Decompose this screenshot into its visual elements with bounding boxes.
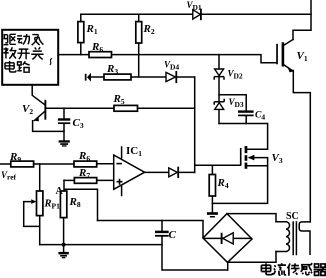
svg-text:V2: V2 — [22, 103, 33, 116]
svg-text:R7: R7 — [78, 167, 90, 180]
svg-text:R8: R8 — [69, 196, 81, 209]
svg-text:SC: SC — [286, 211, 299, 222]
svg-text:V3: V3 — [272, 152, 283, 165]
svg-text:R9: R9 — [9, 151, 21, 164]
svg-text:R6: R6 — [91, 41, 103, 54]
svg-text:R2: R2 — [143, 23, 155, 36]
svg-text:A: A — [56, 186, 64, 197]
svg-text:R5: R5 — [113, 93, 125, 106]
svg-text:C3: C3 — [73, 117, 84, 130]
svg-text:V1: V1 — [297, 50, 308, 63]
svg-text:VD4: VD4 — [164, 60, 179, 72]
svg-text:R4: R4 — [217, 177, 229, 190]
svg-text:C: C — [169, 229, 177, 241]
svg-text:C4: C4 — [255, 111, 265, 122]
svg-text:R3: R3 — [106, 63, 118, 76]
svg-text:VD3: VD3 — [229, 97, 244, 109]
svg-text:R6: R6 — [78, 150, 90, 163]
svg-text:RP1: RP1 — [44, 199, 61, 211]
svg-text:VD1: VD1 — [187, 0, 202, 12]
svg-text:Vref: Vref — [1, 170, 17, 182]
svg-text:IC1: IC1 — [126, 145, 142, 158]
svg-text:R1: R1 — [86, 23, 98, 36]
svg-text:VD2: VD2 — [228, 69, 243, 81]
